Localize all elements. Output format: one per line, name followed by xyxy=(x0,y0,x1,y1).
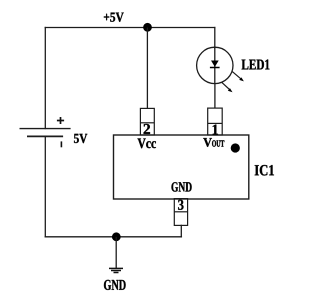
wire: +5V rail down to LED anode xyxy=(214,28,216,49)
label IC1 xyxy=(255,165,274,176)
node: junction dot on +5V rail xyxy=(143,23,152,32)
pin number 2 xyxy=(144,124,150,134)
wire: ground stub xyxy=(115,237,117,268)
label GND (IC pin name) xyxy=(172,182,192,191)
pin box 1 xyxy=(208,108,223,135)
IC IC1 body xyxy=(114,135,249,199)
pin box 3 xyxy=(174,199,187,226)
wire: +5V junction down to IC pin 2 xyxy=(146,28,148,109)
pin number 1 xyxy=(213,125,218,135)
label VOUT (IC pin name) xyxy=(203,138,224,147)
label GND (ground) xyxy=(104,280,126,290)
ground symbol xyxy=(109,268,123,272)
wire: IC pin 3 down to ground rail xyxy=(180,225,182,236)
battery BT1 5V xyxy=(20,117,71,147)
label Vcc (IC pin name) xyxy=(138,139,156,149)
pin number 3 xyxy=(178,200,183,210)
node: dot marker near VOUT xyxy=(231,143,240,152)
label +5V xyxy=(104,13,124,22)
LED LED1 xyxy=(197,47,244,92)
pin box 2 xyxy=(140,108,154,135)
wire: +5V top rail xyxy=(45,27,215,29)
wire: +5V rail down to battery positive xyxy=(44,28,46,129)
wire: LED cathode down to IC pin 1 xyxy=(214,84,216,109)
label 5V (battery value) xyxy=(74,134,87,143)
node: junction dot on ground rail xyxy=(112,232,121,241)
label LED1 xyxy=(242,60,270,70)
wire: bottom ground rail xyxy=(45,236,181,238)
wire: battery negative down to ground rail xyxy=(44,137,46,237)
